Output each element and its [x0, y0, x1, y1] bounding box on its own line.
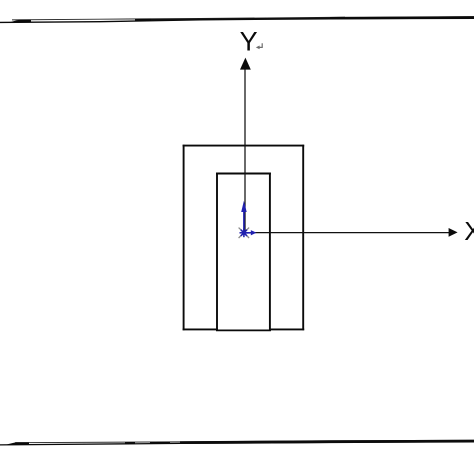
plate top edge solid segment 2	[330, 17, 345, 20]
outer rectangle left edge	[183, 145, 185, 331]
plate bottom edge merged right section	[180, 440, 474, 444]
inner slot left edge	[216, 173, 218, 331]
origin X arrowhead	[251, 230, 257, 235]
origin X arrow stem	[244, 232, 251, 234]
inner slot right edge	[269, 173, 271, 331]
origin Y arrow stem	[243, 211, 245, 233]
X axis arrowhead	[449, 228, 458, 237]
plate bottom edge left wedge	[7, 442, 29, 445]
svg-text:X: X	[464, 216, 474, 246]
origin blue asterisk	[240, 228, 249, 237]
outer rectangle right edge	[302, 145, 304, 331]
plate top edge near line	[0, 18, 474, 22]
X axis line	[244, 232, 450, 234]
inner slot top edge	[216, 173, 271, 175]
plate top edge far line	[12, 17, 474, 20]
plate top edge merged mid section	[151, 17, 330, 20]
Y axis line	[244, 68, 246, 233]
plate bottom edge solid segment 1	[125, 442, 135, 444]
return symbol	[259, 43, 262, 47]
plate bottom edge solid segment 2	[150, 442, 170, 444]
origin gray rays	[239, 228, 250, 238]
outer rectangle top edge	[183, 145, 305, 147]
plate bottom edge far line	[15, 440, 474, 443]
Y axis arrowhead	[240, 58, 251, 70]
plate top edge solid segment 1	[135, 19, 151, 21]
outer rectangle bottom edge right segment	[269, 328, 304, 330]
plate top edge left wedge	[11, 20, 31, 23]
origin Y arrowhead	[241, 201, 247, 212]
origin blue center dot	[242, 231, 246, 235]
outer rectangle bottom edge left segment	[183, 328, 218, 330]
svg-text:Y: Y	[240, 27, 258, 57]
inner slot bottom edge	[216, 329, 271, 331]
plate bottom edge near line	[0, 442, 474, 445]
plate top edge solid segment 3	[345, 16, 474, 19]
